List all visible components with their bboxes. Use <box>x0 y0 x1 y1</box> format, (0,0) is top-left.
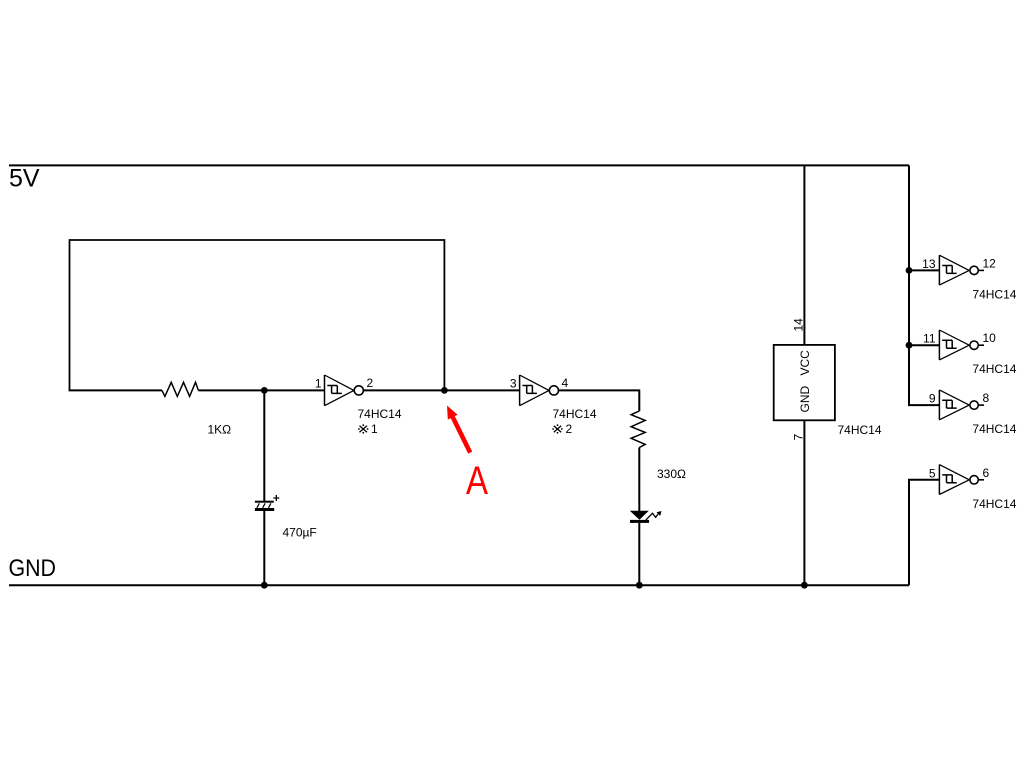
svg-text:VCC: VCC <box>798 350 812 376</box>
svg-text:74HC14: 74HC14 <box>972 497 1016 511</box>
unused inverter gate pins 13/12 <box>939 255 984 285</box>
svg-text:GND: GND <box>9 555 57 582</box>
svg-text:1KΩ: 1KΩ <box>208 423 232 437</box>
unused inverter gate pins 5/6 <box>939 465 984 495</box>
capacitor C1 470µF (polarized) <box>255 495 279 511</box>
wire 5V to IC power pin 14 <box>803 165 805 345</box>
wire from loop corner to resistor R1 <box>69 389 162 391</box>
IC U1 power block 74HC14 <box>774 345 835 420</box>
inverter U2 (74HC14 gate 3/4) <box>520 375 559 406</box>
svg-text:1: 1 <box>371 422 378 436</box>
resistor R2 330Ω (vertical) <box>631 411 645 448</box>
reference mark ※2 <box>552 422 572 436</box>
junction at pin 13 stub <box>906 267 913 274</box>
svg-text:4: 4 <box>562 376 569 390</box>
svg-text:74HC14: 74HC14 <box>358 407 402 421</box>
unused inverter gate pins 11/10 <box>939 330 984 360</box>
GND power rail <box>9 584 909 586</box>
junction capacitor to GND <box>261 582 268 589</box>
wire capacitor branch lower <box>263 511 265 585</box>
svg-text:74HC14: 74HC14 <box>553 407 597 421</box>
wire stub to gate pin 13 <box>909 269 939 271</box>
svg-text:74HC14: 74HC14 <box>972 288 1016 302</box>
svg-text:12: 12 <box>983 256 997 270</box>
5V power rail <box>9 164 909 166</box>
svg-text:GND: GND <box>798 386 812 413</box>
wire LED to GND <box>638 523 640 585</box>
svg-text:13: 13 <box>922 257 936 271</box>
junction IC ground to GND rail <box>801 582 808 589</box>
svg-text:14: 14 <box>792 318 806 332</box>
unused inverter gate pins 9/8 <box>939 390 984 420</box>
wire resistor R2 to LED <box>638 448 640 512</box>
reference mark ※1 <box>358 422 378 436</box>
inverter U1 (74HC14 gate 1/2) <box>325 375 364 406</box>
LED D1 <box>630 511 662 523</box>
svg-text:2: 2 <box>566 422 573 436</box>
wire U1 output to node A and on to U2 input <box>363 389 519 391</box>
svg-text:9: 9 <box>929 392 936 406</box>
wire resistor to U1 input <box>198 389 324 391</box>
right vertical rail from GND to gate pin 5 <box>909 480 939 585</box>
resistor R1 1KΩ <box>162 382 198 396</box>
svg-text:74HC14: 74HC14 <box>972 422 1016 436</box>
wire stub to gate pin 11 <box>909 344 939 346</box>
svg-text:330Ω: 330Ω <box>657 467 686 481</box>
svg-text:8: 8 <box>983 391 990 405</box>
svg-text:2: 2 <box>367 376 374 390</box>
svg-text:6: 6 <box>983 466 990 480</box>
svg-text:5: 5 <box>929 466 936 480</box>
wire U2 output to resistor R2 <box>559 390 640 411</box>
node junction at capacitor tap <box>261 387 268 394</box>
junction at pin 11 stub <box>906 342 913 349</box>
right vertical rail from 5V <box>909 165 939 405</box>
junction LED branch to GND <box>636 582 643 589</box>
svg-text:1: 1 <box>315 377 322 391</box>
svg-text:11: 11 <box>923 332 936 346</box>
wire feedback loop (output of U1 back to resistor input) <box>70 240 445 390</box>
svg-text:74HC14: 74HC14 <box>972 362 1016 376</box>
node A junction <box>441 387 448 394</box>
svg-text:470µF: 470µF <box>283 526 317 540</box>
svg-text:3: 3 <box>510 377 517 391</box>
svg-text:5V: 5V <box>9 165 40 193</box>
svg-text:A: A <box>466 459 488 503</box>
red annotation arrow pointing at node A <box>447 406 470 453</box>
svg-text:74HC14: 74HC14 <box>838 423 882 437</box>
wire IC pin 7 to GND <box>803 420 805 585</box>
wire capacitor branch upper <box>263 390 265 501</box>
svg-text:10: 10 <box>983 331 997 345</box>
